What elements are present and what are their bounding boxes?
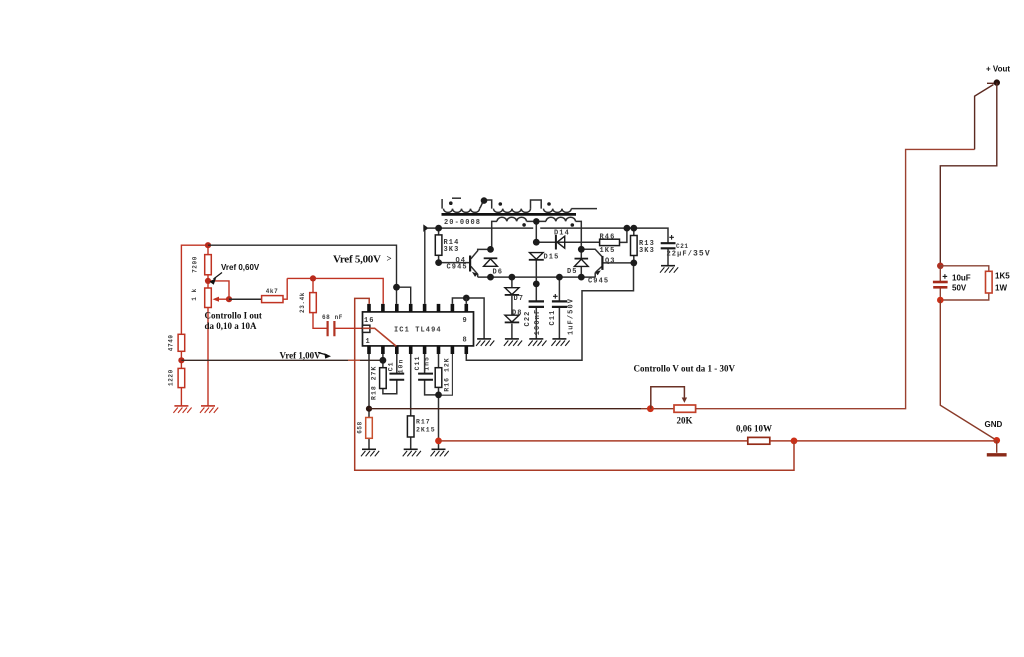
transformer 20-0008 primary winding bbox=[442, 198, 597, 212]
wire pins 9/10 to ground bbox=[452, 298, 484, 339]
resistor R13 3K3 bbox=[631, 236, 638, 256]
wire pot top node to wiper node bbox=[208, 281, 229, 299]
svg-text:2K15: 2K15 bbox=[416, 427, 436, 434]
svg-text:23.4k: 23.4k bbox=[299, 292, 306, 313]
wire C11 1uF to ground bbox=[558, 308, 560, 339]
wire supply rail right segment with hop gap bbox=[540, 228, 668, 243]
wire Q3 collector bbox=[581, 249, 601, 256]
svg-text:C22: C22 bbox=[524, 311, 532, 327]
IC top pin stubs 16..9 bbox=[369, 304, 466, 312]
transformer secondary winding bbox=[492, 217, 582, 249]
svg-text:R18 27K: R18 27K bbox=[370, 366, 377, 400]
wire 658 to ground bbox=[368, 409, 370, 450]
ground red under pot 1k bbox=[200, 406, 218, 413]
wire pin5 down to C11 bbox=[424, 354, 426, 374]
wire sense line red to 20K pot bbox=[641, 408, 674, 410]
svg-text:100nF: 100nF bbox=[534, 309, 542, 336]
secondary center tap drop to D15 bbox=[535, 221, 537, 242]
wire pin2 down to Vref1 node and R18 bbox=[382, 354, 384, 368]
wire pot wiper loop bbox=[651, 387, 685, 409]
svg-text:>: > bbox=[387, 254, 392, 264]
ground red under 1220 bbox=[173, 406, 191, 413]
svg-text:20-0008: 20-0008 bbox=[444, 219, 481, 227]
svg-text:1 k: 1 k bbox=[191, 288, 198, 301]
transformer core bbox=[442, 213, 577, 216]
svg-text:D6: D6 bbox=[493, 269, 504, 277]
feedback terminal square on IC left edge bbox=[363, 325, 370, 332]
resistor R18 27K bbox=[380, 368, 387, 389]
wire 4740 to 1220 bbox=[180, 351, 182, 368]
wire 23.4k bottom to 68nF bbox=[313, 313, 328, 329]
wire 7200 to node Vref0.6 bbox=[207, 275, 209, 288]
node dot D15 top bbox=[533, 239, 540, 246]
wire R13 bottom bbox=[633, 256, 635, 263]
wire pin9 stub up bbox=[465, 298, 467, 304]
wire Vref 1,00V line bbox=[181, 359, 383, 361]
wire C11 1uF top to bus bbox=[558, 277, 560, 301]
wiper arrow of pot 1k bbox=[216, 298, 229, 300]
secondary center tap dot bbox=[533, 218, 540, 225]
node dot wiper junction bbox=[226, 296, 232, 302]
wire 4k7 right up to 23.4k rail bbox=[283, 278, 287, 299]
wire secondary right terminal down to Q3 collector node bbox=[580, 249, 582, 259]
wire D14 line from D15 node to R46 bbox=[536, 241, 599, 243]
wire Vref 5,00V from 7200 node to pins 14/13 bbox=[208, 245, 397, 287]
resistor 7200 bbox=[205, 255, 212, 275]
svg-text:C21: C21 bbox=[676, 243, 689, 250]
wire C22 to ground bbox=[535, 308, 537, 339]
svg-text:Controllo I out: Controllo I out bbox=[205, 311, 262, 321]
node dot divider 4740/1220 bbox=[178, 357, 184, 363]
svg-text:1W: 1W bbox=[995, 284, 1007, 293]
svg-text:658: 658 bbox=[356, 421, 363, 434]
transistor Q4 C945 bbox=[469, 256, 471, 272]
wire D8 to ground bbox=[511, 324, 513, 339]
wire pin7 to ground node bbox=[439, 354, 453, 395]
wire Q4 collector bbox=[471, 249, 491, 258]
svg-text:1K5: 1K5 bbox=[995, 272, 1010, 281]
svg-text:22µF/35V: 22µF/35V bbox=[667, 250, 711, 259]
node dot D6 anode on bus bbox=[487, 274, 494, 281]
capacitor C11 1uF/50V polarized bbox=[552, 301, 567, 307]
svg-text:10n: 10n bbox=[397, 359, 404, 374]
node dot 23.4k top bbox=[310, 275, 316, 281]
wire branch to pin 13 bbox=[397, 287, 411, 304]
svg-text:C1: C1 bbox=[388, 361, 395, 371]
arrow after Vref 1,00V bbox=[318, 353, 327, 356]
node dot 7200 top bbox=[205, 242, 211, 248]
svg-text:C11: C11 bbox=[414, 356, 421, 371]
svg-text:Controllo V out da 1 - 30V: Controllo V out da 1 - 30V bbox=[634, 364, 736, 374]
node dot pin1/658 bbox=[366, 406, 372, 412]
node dot C11 1uF on bus bbox=[556, 274, 563, 281]
wire sense return to pin 16 bbox=[355, 298, 794, 470]
node dot shunt line at R16 bbox=[435, 438, 442, 445]
svg-text:Vref 0,60V: Vref 0,60V bbox=[221, 263, 260, 272]
svg-text:D5: D5 bbox=[567, 268, 578, 276]
ground under R16 bbox=[431, 449, 449, 456]
node dots rail R46/R13 bbox=[624, 225, 631, 232]
transistor Q3 C945 bbox=[601, 256, 603, 270]
resistor 1K5 1W bbox=[986, 271, 993, 293]
wire Q3 emitter bbox=[595, 267, 602, 278]
primary polarity dots bbox=[449, 201, 453, 205]
node dot pin2/Vref1 bbox=[380, 357, 387, 364]
svg-text:1n5: 1n5 bbox=[423, 356, 430, 371]
svg-text:C945: C945 bbox=[588, 278, 609, 286]
node dot R16/C11 bottom bbox=[435, 392, 442, 399]
primary junction dot bbox=[481, 197, 488, 204]
resistor 0,06 10W bbox=[748, 437, 770, 444]
wire shunt line left segment bbox=[439, 440, 748, 442]
red tint segment on Vref1 line bbox=[348, 359, 360, 361]
svg-text:da 0,10 a 10A: da 0,10 a 10A bbox=[205, 321, 258, 331]
node dot GND bbox=[993, 437, 1000, 444]
wire R14 bottom to Q4 base node bbox=[438, 255, 440, 262]
svg-text:1uF/50V: 1uF/50V bbox=[567, 298, 575, 335]
wire pin14 drop bbox=[396, 287, 398, 304]
ground under R17 bbox=[403, 449, 421, 456]
node dot Q4 collector/D6 bbox=[487, 246, 494, 253]
potentiometer 20K bbox=[674, 405, 696, 412]
wire C11 bottom to R16 bottom node bbox=[425, 380, 439, 395]
wire filter bottom down and diagonal to GND bbox=[940, 300, 996, 440]
stray junction dot below bus bbox=[533, 281, 540, 288]
wire D7 top bbox=[511, 277, 513, 288]
wire pin1 down to 658 node bbox=[368, 354, 370, 409]
node dot Q3 base/R13 bbox=[630, 260, 637, 267]
node dot R14/Q4 base/pin11 bbox=[435, 259, 442, 266]
wire pin12 supply drop from rail arrow bbox=[424, 231, 426, 304]
svg-text:50V: 50V bbox=[952, 284, 967, 293]
svg-text:1: 1 bbox=[366, 338, 371, 346]
ground under 658 bbox=[361, 449, 379, 456]
svg-text:68 nF: 68 nF bbox=[322, 314, 343, 321]
wire C21 bottom to ground bbox=[667, 249, 669, 266]
wire pot right to riser bbox=[696, 149, 975, 408]
ground bar GND terminal bbox=[996, 440, 998, 452]
svg-text:7200: 7200 bbox=[192, 256, 199, 273]
secondary polarity dots bbox=[522, 223, 526, 227]
resistor R14 3K3 bbox=[435, 235, 442, 255]
ground under C11 1uF bbox=[551, 339, 569, 346]
svg-text:Vref 1,00V: Vref 1,00V bbox=[280, 351, 322, 361]
svg-text:9: 9 bbox=[463, 317, 468, 325]
svg-text:R16 12K: R16 12K bbox=[444, 357, 451, 391]
red feedback wire through square to pin 3 bbox=[363, 328, 397, 346]
op-amp/IC U1 TL494 body bbox=[363, 312, 474, 346]
node dot rail/R14 bbox=[435, 225, 442, 232]
svg-text:10uF: 10uF bbox=[952, 274, 971, 283]
svg-text:GND: GND bbox=[985, 420, 1003, 429]
capacitor C22 100nF bbox=[529, 301, 544, 307]
wire R18 bottom to C1 bottom bbox=[383, 380, 397, 394]
wire pin3 down to C1 bbox=[396, 354, 398, 374]
svg-text:C945: C945 bbox=[447, 264, 468, 272]
svg-text:3K3: 3K3 bbox=[639, 247, 655, 255]
switch lead to Vout bbox=[975, 83, 994, 149]
wire D15 bottom through bus to C22 bbox=[535, 260, 537, 301]
arrow feed on rail left end bbox=[423, 224, 428, 232]
svg-text:D7: D7 bbox=[514, 295, 525, 303]
wire 1K5 parallel loop bbox=[940, 266, 989, 300]
svg-text:R17: R17 bbox=[416, 419, 431, 426]
wire Vout down to filter bbox=[940, 83, 997, 266]
resistor 658 bbox=[366, 418, 373, 439]
wire 1220 to ground bbox=[180, 388, 182, 406]
node dot D7 top on bus bbox=[509, 274, 516, 281]
svg-text:1220: 1220 bbox=[167, 369, 174, 386]
wire Vout sense line from pin1 node (dark) bbox=[369, 408, 641, 410]
node dot after shunt bbox=[791, 438, 798, 445]
resistor 4k7 bbox=[262, 296, 283, 303]
wire R13 top bbox=[633, 228, 635, 235]
wire black wiper to 4k7 bbox=[229, 298, 262, 300]
potentiometer 1k bbox=[205, 288, 212, 308]
svg-text:+ Vout: + Vout bbox=[986, 65, 1010, 74]
wire pot bottom to ground bbox=[207, 308, 209, 406]
svg-text:4740: 4740 bbox=[167, 334, 174, 351]
wire pin8 to Q3 base path bbox=[466, 265, 633, 360]
svg-text:8: 8 bbox=[463, 337, 468, 345]
resistor 23.4k bbox=[310, 293, 317, 313]
wire R14 top bbox=[438, 228, 440, 235]
node dot pin9 bbox=[463, 295, 470, 302]
resistor R17 2K15 bbox=[407, 416, 414, 437]
node dot Vref junction bbox=[393, 284, 400, 291]
node dot Q3 collector/D5 bbox=[578, 246, 585, 253]
svg-text:1K5: 1K5 bbox=[600, 247, 616, 255]
wire left vertical from top node down to divider bbox=[181, 245, 208, 334]
resistor 4740 bbox=[178, 334, 185, 351]
node dot D5 anode on bus bbox=[578, 274, 585, 281]
node dot Vref 0,60V bbox=[205, 278, 211, 284]
wire Q3 base to R13 node bbox=[603, 262, 633, 264]
ground under D8 bbox=[504, 339, 522, 346]
svg-text:Vref 5,00V: Vref 5,00V bbox=[333, 254, 381, 266]
svg-text:IC1 TL494: IC1 TL494 bbox=[394, 327, 442, 335]
diode D5 bbox=[575, 258, 589, 260]
svg-text:3K3: 3K3 bbox=[444, 246, 460, 254]
wire R46 right to rail bbox=[620, 228, 627, 242]
wire shunt to GND bbox=[770, 440, 997, 442]
svg-text:D15: D15 bbox=[544, 253, 560, 261]
diode D7 bbox=[505, 288, 519, 295]
svg-text:4k7: 4k7 bbox=[266, 288, 279, 295]
wire emitter bus bbox=[478, 276, 596, 278]
wire Q4 emitter bbox=[471, 266, 478, 277]
diode D6 bbox=[484, 257, 498, 259]
capacitor C21 22uF/35V bbox=[661, 243, 676, 248]
wire supply rail left segment bbox=[428, 227, 533, 229]
wire D5 anode to bus bbox=[580, 266, 582, 277]
node dot filter bottom bbox=[937, 297, 944, 304]
wire Q4 base bbox=[439, 262, 470, 264]
node dot filter top bbox=[937, 263, 944, 270]
wire D7 to D8 bbox=[511, 296, 513, 315]
capacitor C11 1n5 bbox=[418, 374, 433, 380]
svg-text:C11: C11 bbox=[549, 310, 557, 326]
capacitor C1 10n bbox=[389, 374, 404, 380]
resistor R16 12K bbox=[435, 368, 442, 388]
svg-text:16: 16 bbox=[364, 317, 375, 325]
ground pins 9/10 bbox=[476, 339, 494, 346]
resistor 1220 bbox=[178, 368, 185, 387]
svg-text:20K: 20K bbox=[677, 416, 693, 426]
ground under C21 bbox=[660, 266, 678, 273]
svg-text:Q3: Q3 bbox=[605, 258, 616, 266]
arrow pot wiper bbox=[682, 398, 687, 403]
wire pin6 down to R16 bbox=[438, 354, 440, 368]
arrow to Vref 0,60V node bbox=[214, 273, 223, 280]
wire node to pin15 red bbox=[287, 278, 383, 304]
wire 7200 top stub bbox=[207, 245, 209, 254]
svg-text:0,06 10W: 0,06 10W bbox=[736, 424, 772, 434]
node dot pot left bbox=[647, 405, 654, 412]
diode D15 bbox=[530, 253, 544, 260]
IC bottom pin stubs 1..8 bbox=[369, 346, 466, 354]
wire pin4 down through R17 to ground bbox=[410, 354, 412, 449]
wire 68nF to IC pin16 square bbox=[334, 327, 362, 329]
wire R16 bottom to ground bbox=[438, 387, 440, 449]
capacitor 10uF 50V bbox=[939, 266, 941, 300]
ground under C22 bbox=[528, 339, 546, 346]
wire 23.4k top stub bbox=[312, 278, 314, 292]
capacitor 68nF bbox=[328, 321, 335, 336]
